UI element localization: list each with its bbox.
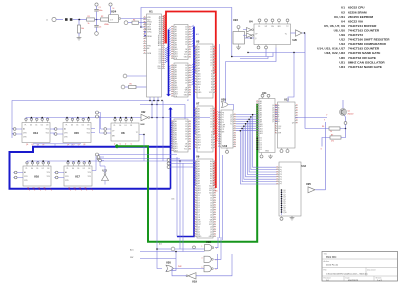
bus entries U5 left — [194, 47, 196, 73]
svg-text:C1: C1 — [99, 7, 101, 9]
svg-text:D4: D4 — [210, 205, 212, 207]
svg-text:I0: I0 — [211, 132, 212, 134]
svg-text:65C22 VIA: 65C22 VIA — [348, 19, 364, 23]
svg-text:D6: D6 — [185, 136, 187, 138]
svg-text:I1: I1 — [211, 134, 212, 136]
svg-text:D4: D4 — [159, 57, 161, 59]
svg-text:D6: D6 — [159, 60, 161, 62]
svg-text:Y4: Y4 — [210, 57, 212, 59]
svg-text:IRQB: IRQB — [147, 24, 151, 26]
connector IRQ — [123, 74, 146, 78]
svg-text:74HCT166 SHIFT REGISTER: 74HCT166 SHIFT REGISTER — [348, 38, 390, 42]
svg-text:U18, U22, U23: U18, U22, U23 — [325, 51, 346, 55]
svg-text:U9: U9 — [196, 154, 200, 158]
wire U12 output — [295, 115, 327, 118]
svg-text:D0: D0 — [185, 27, 187, 29]
svg-text:Y0: Y0 — [210, 46, 212, 48]
svg-text:Q3: Q3 — [272, 112, 274, 114]
svg-text:D4: D4 — [198, 205, 200, 207]
power flag VCC1 — [95, 3, 103, 20]
svg-text:D7: D7 — [198, 212, 200, 214]
wire row2 top bus — [27, 161, 196, 163]
wire video route — [302, 33, 305, 129]
svg-text:P1: P1 — [222, 117, 224, 119]
svg-text:U23: U23 — [233, 18, 238, 22]
svg-text:CE: CE — [198, 90, 200, 92]
svg-text:U14, U15, U16, U17: U14, U15, U16, U17 — [317, 47, 345, 51]
svg-text:RWB: RWB — [147, 53, 151, 55]
wire — [343, 100, 346, 122]
svg-text:CP: CP — [222, 129, 224, 131]
nand gate U18B — [202, 256, 217, 262]
svg-text:U5: U5 — [196, 39, 200, 43]
svg-text:D1: D1 — [185, 68, 187, 70]
bus entries U2 right — [192, 25, 194, 47]
svg-text:Q6: Q6 — [272, 119, 274, 121]
svg-text:Q2: Q2 — [78, 144, 80, 146]
svg-text:D1: D1 — [159, 51, 161, 53]
svg-text:A0: A0 — [65, 171, 67, 174]
resistor R3 pulldown — [77, 20, 84, 37]
svg-text:8MHZ CAN OSCILLATOR: 8MHZ CAN OSCILLATOR — [348, 60, 385, 64]
title block — [322, 252, 398, 283]
svg-text:CE: CE — [175, 96, 177, 98]
svg-text:74HCT244 BUFFER: 74HCT244 BUFFER — [348, 24, 377, 28]
svg-text:G: G — [321, 149, 323, 151]
svg-text:I7: I7 — [211, 90, 212, 92]
svg-text:R1: R1 — [88, 16, 90, 18]
svg-text:Y6: Y6 — [210, 63, 212, 65]
wire — [245, 37, 255, 39]
svg-text:U4: U4 — [341, 19, 345, 23]
svg-text:A15: A15 — [172, 197, 175, 200]
svg-text:D7: D7 — [185, 44, 187, 46]
svg-text:OE: OE — [198, 217, 200, 219]
svg-text:D4: D4 — [185, 131, 187, 133]
svg-text:D1: D1 — [76, 124, 78, 126]
svg-text:D5: D5 — [185, 77, 187, 79]
svg-text:100n: 100n — [99, 10, 103, 12]
wire U11 to U12 links — [275, 105, 278, 121]
svg-text:I2: I2 — [211, 76, 212, 78]
svg-text:D5: D5 — [159, 59, 161, 61]
svg-text:D5: D5 — [198, 207, 200, 209]
svg-text:D2: D2 — [260, 142, 262, 144]
svg-text:U4: U4 — [249, 19, 253, 23]
IC U11 28C256 EEPROM — [256, 91, 278, 158]
svg-text:OE: OE — [185, 87, 187, 89]
svg-text:09/02/2023: 09/02/2023 — [348, 280, 359, 282]
IC U12 74HCT166 shift register — [275, 98, 298, 153]
svg-text:A0: A0 — [24, 171, 26, 174]
svg-text:1k: 1k — [88, 23, 90, 25]
svg-text:P6: P6 — [280, 181, 282, 183]
svg-text:Q0: Q0 — [230, 114, 232, 116]
svg-text:D3: D3 — [198, 202, 200, 204]
svg-text:U15: U15 — [74, 131, 79, 135]
svg-text:D7: D7 — [187, 100, 189, 102]
svg-text:U21: U21 — [339, 60, 345, 64]
wire — [321, 129, 346, 151]
svg-text:U2: U2 — [341, 10, 345, 14]
capacitor C1 — [94, 9, 98, 11]
svg-text:74HCT00 NAND GATE: 74HCT00 NAND GATE — [348, 51, 380, 55]
svg-text:P1: P1 — [280, 169, 282, 171]
svg-text:Derik Piccini: Derik Piccini — [326, 264, 339, 267]
junctions staircase — [240, 114, 254, 132]
IC U4 65C22 VIA — [249, 19, 291, 49]
svg-text:Y6: Y6 — [210, 124, 212, 126]
junction — [143, 134, 144, 135]
svg-text:Y5: Y5 — [210, 60, 212, 62]
svg-text:Y1: Y1 — [210, 111, 212, 113]
resistor R5 — [129, 84, 137, 89]
svg-text:Q0: Q0 — [67, 144, 69, 146]
svg-text:Q3: Q3 — [230, 121, 232, 123]
svg-text:Q3: Q3 — [42, 144, 44, 146]
bus: blue data bus segment A — [167, 30, 171, 97]
svg-text:D7: D7 — [185, 82, 187, 84]
svg-text:D0: D0 — [30, 124, 32, 126]
svg-text:PL: PL — [258, 26, 260, 28]
wire above loop — [33, 144, 81, 146]
junction — [304, 32, 305, 33]
svg-text:CE: CE — [175, 58, 177, 60]
svg-text:D3: D3 — [260, 145, 262, 147]
bus: red address bus — [166, 12, 216, 189]
wire staircase bus U10 to U13 — [236, 115, 277, 184]
svg-text:Q2: Q2 — [272, 110, 274, 112]
bus: blue data bus segment B — [177, 27, 194, 237]
junction — [79, 19, 98, 21]
svg-text:U17: U17 — [75, 175, 80, 179]
svg-text:2N2222: 2N2222 — [348, 114, 354, 116]
svg-text:Q4: Q4 — [272, 114, 274, 116]
wire clock route — [226, 48, 277, 62]
svg-text:Q2: Q2 — [210, 231, 212, 233]
svg-text:RST: RST — [209, 224, 212, 226]
svg-text:P2: P2 — [280, 172, 282, 174]
svg-text:Q1: Q1 — [272, 107, 274, 109]
svg-text:U22: U22 — [141, 124, 146, 126]
junctions U8 bus — [114, 117, 132, 119]
svg-text:U24: U24 — [339, 65, 345, 69]
nand gate U18C — [202, 266, 217, 272]
svg-text:U10: U10 — [223, 145, 228, 148]
svg-text:D3: D3 — [159, 55, 161, 57]
connector row2 aux — [97, 156, 104, 162]
svg-text:SH: SH — [278, 128, 280, 130]
junctions row1 — [31, 117, 164, 119]
svg-text:D5: D5 — [185, 39, 187, 41]
connector reset — [124, 21, 132, 25]
junctions U11 on green bus — [256, 138, 258, 151]
junction — [345, 128, 347, 130]
inverter U25 — [306, 120, 326, 193]
svg-text:P0: P0 — [222, 115, 224, 117]
svg-text:D1: D1 — [260, 140, 262, 142]
svg-text:Y4: Y4 — [210, 119, 212, 121]
svg-text:Q1: Q1 — [198, 229, 200, 231]
svg-text:D1: D1 — [77, 168, 79, 170]
svg-text:QH: QH — [292, 123, 294, 125]
resistor R1 — [87, 16, 95, 25]
spare — [0, 0, 1, 1]
or gate U20B — [291, 30, 303, 42]
svg-text:File: File — [324, 269, 327, 271]
svg-text:R5: R5 — [130, 84, 132, 86]
svg-text:WE: WE — [210, 219, 213, 221]
connector Q1 emitter — [344, 122, 347, 125]
svg-text:U13: U13 — [302, 165, 307, 168]
bus entries U7 right — [213, 109, 216, 135]
svg-text:U24A: U24A — [104, 23, 109, 26]
svg-text:3: 3 — [216, 248, 217, 250]
bus entries U1 data to blue bus — [165, 47, 168, 63]
nand gate U18A — [159, 240, 217, 251]
svg-text:D7: D7 — [185, 139, 187, 141]
wire row1 top bus — [26, 118, 210, 120]
svg-text:U18: U18 — [206, 240, 211, 244]
inverter U22B inline — [141, 111, 150, 126]
wire U8 TC — [139, 135, 144, 162]
svg-text:Q5: Q5 — [272, 117, 274, 119]
resistor R4 — [132, 19, 139, 24]
IC U13 74HCT688 comparator — [276, 162, 307, 220]
svg-text:OE: OE — [185, 49, 187, 51]
svg-text:MLB: MLB — [147, 27, 150, 29]
svg-text:D2: D2 — [185, 32, 187, 34]
connector mid C — [167, 166, 194, 169]
svg-text:Q0: Q0 — [26, 144, 28, 146]
connector mid B — [167, 162, 194, 165]
bus entries U3 right — [192, 64, 194, 86]
svg-text:D2: D2 — [198, 200, 200, 202]
svg-text:F: F — [278, 117, 279, 119]
svg-text:10k: 10k — [81, 28, 84, 30]
svg-text:74HCT273: 74HCT273 — [348, 33, 363, 37]
connector row1 out — [95, 111, 104, 133]
svg-text:A15: A15 — [130, 248, 134, 251]
svg-text:I0: I0 — [211, 71, 212, 73]
svg-text:74HCT688 COMPARATOR: 74HCT688 COMPARATOR — [348, 42, 387, 46]
svg-text:D2: D2 — [210, 200, 212, 202]
svg-text:Y0: Y0 — [210, 108, 212, 110]
net label RW — [130, 257, 133, 259]
wire vertical rail 2 — [225, 62, 227, 104]
connector J1 — [46, 17, 63, 21]
svg-text:Q3: Q3 — [198, 234, 200, 236]
svg-text:D1: D1 — [210, 198, 212, 200]
svg-text:U5, U6, U7, U9: U5, U6, U7, U9 — [324, 24, 345, 28]
svg-text:I4: I4 — [211, 81, 212, 83]
svg-text:PL: PL — [66, 124, 68, 126]
svg-text:Q1: Q1 — [210, 229, 212, 231]
net label A15 — [130, 248, 134, 251]
svg-text:I5: I5 — [211, 84, 212, 86]
svg-text:U14: U14 — [33, 131, 38, 135]
wire U4 aux — [248, 53, 305, 103]
svg-text:P3: P3 — [222, 122, 224, 124]
bus: blue video data loop — [10, 147, 171, 189]
ground — [290, 216, 295, 220]
or gate U20A — [221, 97, 234, 110]
bus entries U10 left from red bus — [216, 111, 218, 142]
svg-text:D4: D4 — [260, 147, 262, 149]
svg-text:D6: D6 — [185, 80, 187, 82]
svg-text:D0: D0 — [185, 121, 187, 123]
svg-text:CET: CET — [222, 127, 225, 129]
svg-text:J1: J1 — [46, 20, 48, 22]
svg-text:I4: I4 — [211, 142, 212, 144]
bus entries U3 left — [169, 66, 171, 92]
svg-text:Q2: Q2 — [198, 231, 200, 233]
svg-text:CS: CS — [210, 214, 212, 216]
wire vertical rail 3 — [222, 155, 224, 240]
svg-text:P2: P2 — [222, 120, 224, 122]
svg-text:U20: U20 — [339, 56, 345, 60]
wire — [73, 19, 87, 21]
IC U1 65C02 CPU — [143, 10, 165, 97]
svg-text:D4: D4 — [185, 75, 187, 77]
svg-text:Y3: Y3 — [210, 54, 212, 56]
svg-text:Q3: Q3 — [210, 234, 212, 236]
svg-text:D2: D2 — [185, 70, 187, 72]
svg-text:D1: D1 — [185, 124, 187, 126]
svg-text:U3, U11: U3, U11 — [334, 15, 345, 19]
svg-text:U24: U24 — [111, 10, 117, 14]
counter U17 74HCT193 — [54, 162, 92, 190]
IC U2 62256 SRAM — [171, 25, 191, 61]
svg-text:U1: U1 — [341, 6, 345, 10]
counter U15 74HCT193 — [53, 118, 91, 146]
svg-text:R4: R4 — [133, 19, 135, 21]
ground — [236, 46, 241, 50]
connector — [226, 148, 229, 153]
nand gate U24 — [104, 10, 121, 26]
svg-text:P4: P4 — [280, 177, 282, 179]
net label blue 1 — [196, 33, 199, 36]
wire under U1 — [140, 105, 185, 120]
junction — [175, 251, 177, 253]
svg-text:D5: D5 — [260, 149, 262, 151]
svg-text:D6: D6 — [198, 210, 200, 212]
wire — [109, 19, 112, 21]
svg-text:D3: D3 — [47, 168, 49, 170]
svg-text:A0: A0 — [64, 128, 66, 131]
svg-text:B: B — [278, 107, 279, 109]
svg-text:8: 8 — [216, 269, 217, 271]
IC U10 74HCT163 counter — [218, 110, 236, 148]
svg-text:D1: D1 — [198, 198, 200, 200]
svg-text:D2: D2 — [41, 124, 43, 126]
svg-text:D0: D0 — [260, 138, 262, 140]
svg-text:U20: U20 — [166, 261, 171, 265]
svg-text:Q0: Q0 — [210, 227, 212, 229]
junction — [151, 100, 162, 105]
svg-text:Title: Title — [324, 253, 328, 256]
svg-text:I6: I6 — [211, 147, 212, 149]
svg-text:P5: P5 — [280, 179, 282, 181]
svg-text:D7: D7 — [159, 62, 161, 64]
wire — [136, 86, 147, 88]
svg-text:D6: D6 — [185, 42, 187, 44]
svg-text:PL: PL — [67, 168, 69, 170]
svg-text:D1: D1 — [35, 124, 37, 126]
svg-text:P0: P0 — [280, 167, 282, 169]
svg-text:A0: A0 — [23, 128, 25, 131]
svg-text:D0: D0 — [210, 195, 212, 197]
svg-text:U16: U16 — [34, 175, 39, 179]
wire vertical x157 — [157, 101, 162, 269]
svg-text:I2: I2 — [211, 137, 212, 139]
bus: green bus — [116, 104, 258, 242]
svg-text:I5: I5 — [211, 145, 212, 147]
svg-text:D0: D0 — [72, 168, 74, 170]
svg-text:INH: INH — [278, 133, 281, 135]
svg-text:H: H — [278, 121, 279, 123]
svg-text:D5: D5 — [210, 207, 212, 209]
wire — [139, 22, 147, 24]
junction — [231, 56, 233, 58]
svg-text:D6: D6 — [210, 210, 212, 212]
power flag VCC2 — [109, 3, 114, 15]
wire — [141, 26, 147, 28]
svg-text:D7: D7 — [210, 212, 212, 214]
svg-text:I3: I3 — [211, 79, 212, 81]
bus entries U9 left — [194, 162, 196, 186]
svg-text:D0: D0 — [119, 125, 121, 127]
wire — [175, 248, 205, 250]
svg-text:Y7: Y7 — [210, 127, 212, 129]
wire — [174, 267, 205, 269]
svg-text:A15: A15 — [159, 243, 162, 246]
resistor R2 — [101, 16, 109, 21]
svg-text:74HCT163 COUNTER: 74HCT163 COUNTER — [348, 28, 380, 32]
bus entries U5 right — [213, 47, 216, 74]
svg-text:D1: D1 — [185, 29, 187, 31]
svg-text:Q1: Q1 — [348, 111, 350, 113]
svg-text:D0: D0 — [31, 168, 33, 170]
svg-text:D2: D2 — [159, 53, 161, 55]
connector NMI — [121, 85, 128, 89]
svg-text:Q1: Q1 — [230, 117, 232, 119]
svg-text:BE: BE — [147, 48, 149, 50]
svg-text:D2: D2 — [83, 168, 85, 170]
svg-text:Q1: Q1 — [31, 144, 33, 146]
svg-text:D3: D3 — [185, 73, 187, 75]
svg-text:1k: 1k — [330, 131, 332, 133]
svg-text:62256 SRAM: 62256 SRAM — [348, 10, 367, 14]
wire — [140, 251, 205, 253]
wire vertical x177 — [176, 157, 178, 237]
gates U4 inputs — [243, 28, 254, 38]
wire — [121, 18, 147, 20]
wire gate outputs — [215, 237, 222, 269]
switch SW1 — [65, 18, 72, 21]
svg-text:Y2: Y2 — [210, 114, 212, 116]
svg-text:PL: PL — [26, 168, 28, 170]
IC U5 74HCT244 buffer — [194, 39, 216, 98]
svg-text:6502 SBC: 6502 SBC — [326, 257, 337, 259]
svg-text:RDY: RDY — [147, 19, 150, 21]
connector mid A — [167, 159, 194, 162]
svg-text:Q10: Q10 — [283, 212, 286, 214]
bus entries U2 left — [169, 27, 171, 56]
svg-text:470: 470 — [331, 141, 334, 143]
spare2 — [0, 0, 1, 1]
svg-text:1 of 1: 1 of 1 — [377, 280, 383, 282]
